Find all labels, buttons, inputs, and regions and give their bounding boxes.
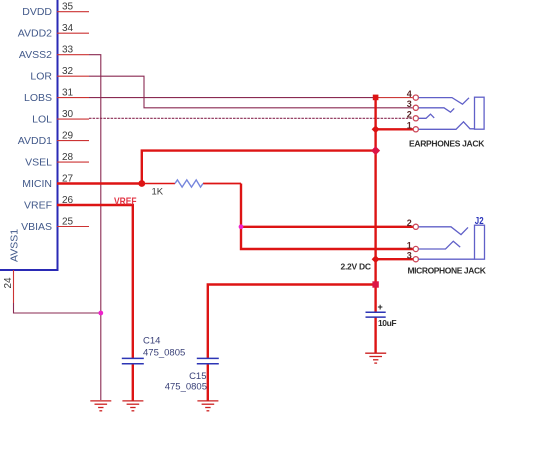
svg-text:10uF: 10uF: [378, 318, 397, 328]
svg-text:3: 3: [407, 99, 412, 109]
svg-text:35: 35: [62, 2, 74, 13]
svg-text:31: 31: [62, 88, 74, 99]
svg-text:24: 24: [3, 277, 14, 289]
svg-text:VSEL: VSEL: [25, 157, 52, 169]
svg-text:AVSS2: AVSS2: [19, 49, 52, 61]
svg-text:VREF: VREF: [24, 200, 52, 212]
svg-text:LOR: LOR: [30, 71, 52, 83]
svg-text:C14: C14: [143, 336, 160, 347]
svg-text:VBIAS: VBIAS: [21, 221, 52, 233]
svg-text:1: 1: [407, 240, 412, 250]
svg-text:1: 1: [407, 121, 412, 131]
svg-text:DVDD: DVDD: [22, 6, 52, 18]
svg-text:AVDD2: AVDD2: [18, 28, 52, 40]
svg-text:2: 2: [407, 110, 412, 120]
svg-text:LOL: LOL: [32, 114, 52, 126]
svg-text:30: 30: [62, 109, 74, 120]
svg-text:1K: 1K: [152, 187, 164, 198]
svg-text:EARPHONES JACK: EARPHONES JACK: [409, 139, 485, 149]
svg-text:33: 33: [62, 45, 74, 56]
svg-text:25: 25: [62, 217, 74, 228]
svg-text:MICROPHONE JACK: MICROPHONE JACK: [408, 266, 487, 276]
svg-text:28: 28: [62, 152, 74, 163]
svg-text:2.2V DC: 2.2V DC: [341, 262, 372, 272]
svg-text:29: 29: [62, 131, 74, 142]
svg-text:34: 34: [62, 23, 74, 34]
svg-text:2: 2: [407, 218, 412, 228]
svg-text:VREF: VREF: [114, 197, 137, 208]
svg-text:AVDD1: AVDD1: [18, 135, 52, 147]
svg-text:27: 27: [62, 174, 74, 185]
svg-text:C15: C15: [189, 371, 206, 382]
svg-text:26: 26: [62, 195, 74, 206]
svg-text:3: 3: [407, 251, 412, 261]
svg-text:AVSS1: AVSS1: [9, 229, 21, 262]
svg-text:475_0805: 475_0805: [165, 382, 207, 393]
svg-text:J2: J2: [475, 216, 484, 227]
svg-text:LOBS: LOBS: [24, 92, 52, 104]
svg-text:32: 32: [62, 66, 74, 77]
svg-text:+: +: [378, 302, 383, 312]
svg-text:475_0805: 475_0805: [143, 348, 185, 359]
svg-text:4: 4: [407, 89, 412, 99]
svg-text:MICIN: MICIN: [22, 178, 52, 190]
